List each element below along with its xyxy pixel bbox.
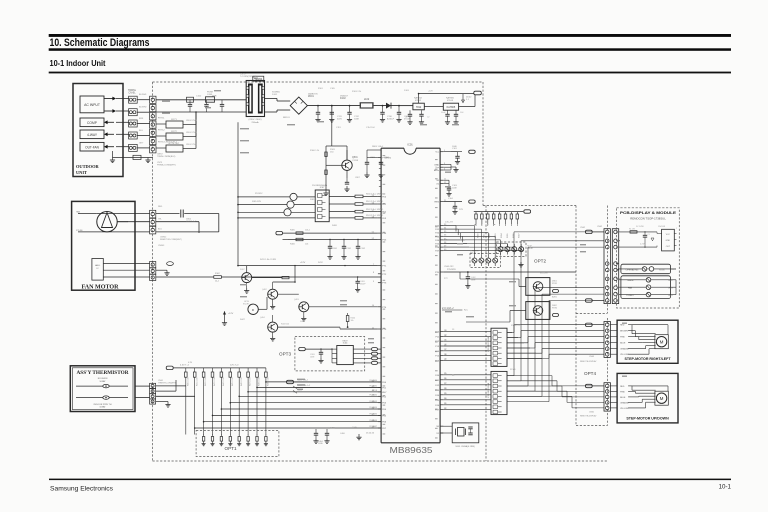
svg-text:P45: P45: [435, 244, 440, 246]
svg-text:C1: C1: [405, 117, 407, 119]
svg-text:26: 26: [445, 378, 447, 380]
svg-text:R437: R437: [519, 233, 521, 238]
svg-text:BR101: BR101: [283, 117, 290, 119]
svg-text:CN903: CN903: [158, 245, 165, 247]
svg-text:R434: R434: [501, 233, 503, 238]
svg-text:150: 150: [330, 152, 334, 154]
svg-text:KEY8: KEY8: [372, 390, 377, 392]
svg-text:16: 16: [445, 344, 447, 346]
svg-text:LED2: LED2: [668, 280, 673, 282]
svg-text:CN63: CN63: [589, 356, 595, 358]
svg-text:103E: 103E: [471, 279, 476, 281]
svg-text:12V: 12V: [459, 209, 463, 211]
svg-text:4.3V-T+1: 4.3V-T+1: [180, 364, 190, 366]
svg-text:25: 25: [452, 375, 455, 377]
svg-text:YEL: YEL: [158, 219, 163, 221]
svg-text:L102: L102: [364, 98, 370, 101]
svg-text:Q402: Q402: [262, 289, 267, 291]
svg-text:RY712: RY712: [158, 130, 165, 132]
svg-text:P64: P64: [382, 409, 387, 411]
svg-text:P03: P03: [382, 218, 387, 220]
svg-text:PINK: PINK: [620, 337, 625, 339]
svg-text:COMP: COMP: [87, 121, 98, 125]
svg-text:X1: X1: [436, 184, 439, 186]
svg-text:13: 13: [452, 329, 455, 331]
svg-text:CN63-2R2: CN63-2R2: [444, 266, 454, 268]
svg-text:P63: P63: [382, 403, 387, 405]
svg-text:R471 10k: R471 10k: [250, 377, 252, 386]
svg-text:1N4148: 1N4148: [658, 226, 666, 228]
svg-text:IR: IR: [252, 309, 255, 312]
svg-text:TRMNL-TERM(BLK): TRMNL-TERM(BLK): [157, 156, 176, 158]
svg-text:2A480?-K: 2A480?-K: [308, 93, 318, 96]
svg-text:BLU: BLU: [139, 130, 143, 132]
svg-text:R407: R407: [240, 269, 245, 271]
svg-text:P71/INT1: P71/INT1: [382, 158, 392, 160]
svg-text:RA41: RA41: [452, 207, 458, 210]
svg-text:RY82: RY82: [552, 308, 558, 310]
svg-text:ASS'Y THERMISTOR: ASS'Y THERMISTOR: [77, 371, 130, 376]
svg-text:15: 15: [445, 339, 447, 341]
svg-text:103AT: 103AT: [99, 405, 106, 408]
svg-text:C501: C501: [347, 248, 352, 250]
svg-text:IC103: IC103: [447, 100, 454, 102]
svg-text:7812: 7812: [416, 106, 422, 109]
svg-text:R103 2.2k: R103 2.2k: [352, 91, 361, 93]
svg-text:M: M: [660, 396, 664, 401]
svg-text:LED3: LED3: [668, 287, 673, 289]
svg-text:10-1: 10-1: [719, 483, 732, 490]
svg-text:SSR-D: SSR-D: [310, 199, 317, 201]
svg-text:P65: P65: [382, 415, 387, 417]
svg-text:BROWN: BROWN: [620, 331, 628, 333]
svg-text:REMOTE-DISPLAY: REMOTE-DISPLAY: [580, 415, 597, 418]
svg-text:FAN MOTOR: FAN MOTOR: [82, 284, 120, 291]
svg-text:400V: 400V: [337, 118, 342, 120]
svg-text:R160 2.2k-J 1/8W+1: R160 2.2k-J 1/8W+1: [366, 194, 383, 196]
svg-text:HALL: HALL: [95, 264, 101, 267]
svg-text:PINK: PINK: [620, 391, 625, 393]
svg-text:P75: P75: [382, 329, 387, 331]
svg-text:A330uF: A330uF: [387, 117, 395, 120]
svg-text:8: 8: [373, 272, 375, 274]
svg-text:AVss: AVss: [434, 169, 440, 172]
svg-text:C104: C104: [448, 198, 454, 200]
svg-text:Q403: Q403: [294, 299, 299, 301]
svg-text:OUT: OUT: [666, 246, 671, 248]
svg-text:CN62: CN62: [597, 226, 603, 228]
svg-text:STEP-MOTOR RIGHT/LEFT: STEP-MOTOR RIGHT/LEFT: [625, 357, 672, 361]
svg-text:R162 2.2k-J 1/8W+1: R162 2.2k-J 1/8W+1: [366, 209, 383, 211]
svg-text:Q801: Q801: [352, 157, 358, 159]
svg-text:YELLOW: YELLOW: [620, 408, 628, 410]
svg-text:OUTDOOR: OUTDOOR: [76, 164, 100, 169]
svg-text:X001 CERA(4.19M): X001 CERA(4.19M): [455, 445, 475, 448]
svg-text:R106 1.2k: R106 1.2k: [310, 150, 319, 152]
svg-text:R431: R431: [483, 233, 485, 238]
svg-text:14: 14: [445, 335, 447, 337]
svg-text:KA7805: KA7805: [447, 106, 456, 109]
svg-text:470uF: 470uF: [404, 118, 410, 120]
svg-text:P46: P46: [435, 247, 440, 249]
svg-text:R405: R405: [290, 229, 296, 231]
svg-text:103AT: 103AT: [99, 380, 106, 383]
svg-text:RED: RED: [620, 386, 625, 388]
svg-text:P72: P72: [444, 278, 448, 280]
svg-text:P41: P41: [435, 380, 440, 382]
svg-text:1.8k-J×8: 1.8k-J×8: [445, 221, 454, 224]
svg-text:RY713 JW-S 12V-1: RY713 JW-S 12V-1: [158, 142, 178, 144]
svg-text:103E: 103E: [318, 443, 323, 445]
svg-text:S1WB60: S1WB60: [272, 92, 281, 94]
svg-text:RES: RES: [435, 202, 440, 204]
svg-text:FUSE: FUSE: [207, 92, 213, 94]
svg-text:1k-J: 1k-J: [215, 281, 219, 283]
svg-text:JW-S 12V-1: JW-S 12V-1: [186, 144, 198, 146]
svg-text:10-1 Indoor Unit: 10-1 Indoor Unit: [50, 59, 106, 68]
svg-text:+12V: +12V: [428, 91, 433, 93]
svg-text:C105: C105: [330, 88, 336, 90]
svg-text:R411 10k: R411 10k: [196, 378, 198, 386]
svg-text:OPT4: OPT4: [584, 371, 596, 376]
svg-text:P44: P44: [435, 240, 440, 242]
svg-text:P55: P55: [382, 240, 387, 242]
svg-text:PRIMB-CONN(WHT): PRIMB-CONN(WHT): [157, 165, 176, 167]
svg-text:KA7805: KA7805: [446, 97, 455, 100]
svg-text:Q404: Q404: [260, 317, 265, 319]
svg-text:R451 10k: R451 10k: [232, 377, 234, 386]
svg-text:P60/AN0: P60/AN0: [369, 379, 377, 382]
svg-text:P43: P43: [435, 236, 440, 238]
svg-text:4.7uF: 4.7uF: [640, 244, 645, 246]
svg-text:P61/AN1: P61/AN1: [369, 385, 377, 388]
svg-text:P11: P11: [435, 336, 439, 338]
svg-text:OPT1: OPT1: [225, 446, 237, 451]
svg-text:+12V: +12V: [300, 262, 306, 264]
svg-text:R431 10k: R431 10k: [214, 377, 216, 386]
svg-text:R411 1.8k-J 1/8W: R411 1.8k-J 1/8W: [260, 259, 276, 261]
svg-text:R2 A0: R2 A0: [510, 368, 516, 371]
svg-text:P43: P43: [435, 390, 440, 392]
svg-text:P70/INT0: P70/INT0: [447, 269, 457, 271]
svg-text:P67/AN7: P67/AN7: [369, 425, 377, 428]
svg-text:10k-J: 10k-J: [305, 229, 310, 231]
svg-text:P41: P41: [435, 229, 440, 231]
svg-text:R101: R101: [318, 88, 324, 90]
svg-text:R163 2.2k-J 1/8W+1: R163 2.2k-J 1/8W+1: [366, 215, 383, 217]
svg-text:10k: 10k: [351, 320, 354, 322]
svg-text:IC: IC: [97, 268, 100, 270]
svg-text:KEY: KEY: [382, 392, 387, 394]
svg-text:JW-S 12V-1: JW-S 12V-1: [186, 120, 198, 122]
svg-text:31: 31: [445, 403, 447, 405]
svg-text:BUZZER: BUZZER: [540, 273, 549, 275]
svg-text:REMOCON TSOP-1738SUL: REMOCON TSOP-1738SUL: [630, 216, 666, 220]
svg-text:10. Schematic Diagrams: 10. Schematic Diagrams: [50, 37, 150, 49]
svg-text:R1 A0, RP5: R1 A0, RP5: [511, 324, 522, 327]
svg-text:104: 104: [460, 112, 464, 114]
svg-text:C406: C406: [340, 433, 346, 435]
svg-text:104E: 104E: [452, 146, 457, 148]
svg-text:REMOTE-DISPLAY: REMOTE-DISPLAY: [580, 360, 597, 363]
svg-text:R435: R435: [507, 233, 509, 238]
svg-text:P01: P01: [382, 204, 387, 206]
svg-text:D101: D101: [272, 94, 278, 96]
svg-text:UNIT: UNIT: [76, 170, 87, 175]
svg-text:SSR-DRV: SSR-DRV: [252, 201, 262, 203]
svg-text:104E: 104E: [452, 187, 457, 189]
svg-text:29: 29: [445, 393, 447, 395]
svg-text:4-WAY: 4-WAY: [87, 133, 98, 137]
svg-text:BRN: BRN: [139, 118, 144, 120]
svg-text:VCC: VCC: [666, 234, 671, 236]
svg-text:SB180: SB180: [659, 269, 665, 271]
svg-text:M: M: [660, 340, 664, 345]
svg-text:TRMNL: TRMNL: [128, 89, 137, 92]
svg-text:R421 10k: R421 10k: [205, 377, 207, 386]
svg-text:P45: P45: [435, 400, 440, 402]
svg-text:3300P: 3300P: [360, 283, 366, 285]
svg-text:P47: P47: [435, 410, 440, 412]
svg-text:P16: P16: [435, 360, 440, 362]
svg-text:GND: GND: [434, 164, 439, 166]
svg-text:P66: P66: [382, 422, 387, 424]
svg-text:R481 10k: R481 10k: [259, 377, 261, 386]
svg-text:1N4007: 1N4007: [340, 96, 348, 98]
svg-text:R447: R447: [240, 319, 246, 321]
svg-text:F101: F101: [208, 94, 214, 96]
svg-text:BLUE: BLUE: [620, 397, 626, 399]
svg-text:YELLOW: YELLOW: [620, 354, 628, 356]
svg-text:STEP-MOTOR UP/DOWN: STEP-MOTOR UP/DOWN: [626, 417, 669, 421]
svg-text:KID65004A: KID65004A: [317, 184, 328, 187]
svg-text:OPT3: OPT3: [279, 352, 291, 357]
svg-text:RY711: RY711: [158, 118, 165, 120]
svg-text:CN62: CN62: [580, 227, 586, 229]
svg-text:RED: RED: [620, 325, 625, 327]
svg-text:P62: P62: [382, 396, 387, 398]
svg-text:12V-T+0: 12V-T+0: [230, 364, 239, 366]
svg-text:RED: RED: [158, 206, 163, 208]
svg-text:R432: R432: [489, 233, 491, 238]
svg-text:13: 13: [445, 330, 447, 332]
svg-text:P10: P10: [435, 332, 440, 334]
svg-text:R461 10k: R461 10k: [241, 377, 243, 386]
svg-text:RTLSE: RTLSE: [76, 230, 83, 232]
svg-text:P61: P61: [382, 387, 387, 389]
svg-text:KB0V: KB0V: [342, 340, 348, 342]
svg-text:R102: R102: [215, 273, 221, 275]
svg-text:13.10.25: 13.10.25: [366, 432, 375, 434]
svg-text:BLUE: BLUE: [620, 343, 626, 345]
svg-text:ORANGE: ORANGE: [620, 401, 629, 404]
svg-text:R408: R408: [332, 225, 338, 227]
svg-text:Vss: Vss: [435, 167, 440, 169]
svg-text:R412: R412: [318, 262, 324, 264]
svg-text:GND: GND: [666, 240, 671, 242]
svg-text:P00: P00: [382, 196, 387, 198]
svg-text:25: 25: [445, 373, 447, 375]
svg-text:C2: C2: [427, 117, 429, 119]
svg-text:BZ81: BZ81: [552, 297, 558, 299]
svg-text:C409: C409: [300, 321, 306, 323]
svg-text:P60: P60: [382, 382, 387, 384]
svg-text:RELAY: RELAY: [470, 252, 477, 255]
svg-text:C1: C1: [648, 234, 650, 236]
svg-text:C114 104: C114 104: [366, 127, 375, 129]
svg-text:D103: D103: [404, 90, 410, 92]
svg-text:RY71: RY71: [171, 119, 177, 121]
svg-text:X0: X0: [436, 180, 439, 182]
svg-text:2,3,1,M,+!: 2,3,1,M,+!: [442, 306, 454, 310]
svg-text:RY72: RY72: [171, 131, 177, 133]
svg-text:C102: C102: [196, 96, 202, 98]
svg-text:LED4: LED4: [668, 295, 673, 297]
svg-text:RY81: RY81: [552, 283, 558, 285]
svg-text:C3198: C3198: [352, 160, 359, 162]
svg-text:JW-S 12V-1: JW-S 12V-1: [186, 132, 198, 134]
svg-text:P54: P54: [382, 233, 387, 235]
svg-text:PCB-DISPLAY & MODULE: PCB-DISPLAY & MODULE: [620, 210, 676, 215]
svg-text:P46: P46: [435, 405, 440, 407]
svg-text:IC07: IC07: [320, 187, 325, 189]
svg-text:P47: P47: [435, 251, 440, 253]
svg-text:103E: 103E: [310, 356, 315, 358]
svg-text:P72: P72: [382, 274, 387, 276]
svg-text:P73: P73: [382, 283, 387, 285]
svg-text:BLU: BLU: [158, 229, 162, 231]
svg-text:R430: R430: [477, 233, 479, 238]
svg-text:P14: P14: [435, 351, 440, 353]
svg-text:9: 9: [373, 281, 375, 283]
svg-text:X1: X1: [436, 433, 439, 435]
svg-text:C101: C101: [452, 148, 458, 150]
svg-text:R501: R501: [333, 248, 338, 250]
svg-text:30: 30: [445, 398, 447, 400]
svg-text:LED1: LED1: [671, 269, 676, 271]
svg-text:104E: 104E: [352, 427, 357, 429]
svg-text:T-CONN(220V,1P): T-CONN(220V,1P): [240, 76, 257, 78]
svg-text:Samsung Electronics: Samsung Electronics: [50, 485, 113, 492]
svg-text:OPT2: OPT2: [534, 259, 546, 264]
svg-text:IR-DET: IR-DET: [243, 303, 250, 305]
svg-text:AC INPUT: AC INPUT: [84, 103, 100, 107]
svg-text:P13: P13: [435, 346, 440, 348]
svg-text:32: 32: [445, 408, 447, 410]
svg-text:5.1: 5.1: [466, 99, 470, 101]
svg-text:P64/AN4: P64/AN4: [369, 406, 377, 409]
svg-text:X0: X0: [436, 426, 439, 428]
svg-text:+12V: +12V: [228, 313, 234, 315]
svg-text:C807: C807: [355, 177, 361, 179]
svg-text:R161 2.2k-J 1/8W+1: R161 2.2k-J 1/8W+1: [366, 201, 383, 203]
svg-text:TRANS: TRANS: [254, 78, 262, 81]
svg-text:OUT-FAN: OUT-FAN: [85, 145, 100, 149]
svg-text:250mA: 250mA: [252, 121, 259, 124]
svg-text:P15: P15: [435, 356, 440, 358]
svg-text:P67: P67: [382, 428, 387, 430]
svg-text:P66/AN6: P66/AN6: [369, 419, 377, 422]
svg-text:P62/AN2: P62/AN2: [369, 394, 377, 397]
svg-text:R443 10k: R443 10k: [281, 323, 289, 325]
svg-text:CN61: CN61: [589, 412, 595, 414]
svg-text:Vcc: Vcc: [435, 152, 440, 154]
svg-text:P42: P42: [435, 233, 440, 235]
svg-text:19: 19: [445, 359, 447, 361]
svg-text:N.C: N.C: [464, 310, 468, 312]
svg-text:RY-DRV: RY-DRV: [255, 193, 263, 195]
svg-text:C113: C113: [336, 127, 342, 129]
svg-text:P63/AN3: P63/AN3: [369, 400, 377, 403]
svg-text:BL/WH1: BL/WH1: [139, 94, 147, 96]
svg-text:TIMER: TIMER: [627, 280, 634, 282]
svg-text:TURBO: TURBO: [626, 295, 634, 297]
svg-text:4.3V: 4.3V: [188, 362, 193, 364]
svg-text:R406: R406: [290, 244, 296, 246]
svg-text:P40: P40: [435, 226, 440, 228]
svg-text:104E: 104E: [354, 118, 359, 120]
svg-text:IC04: IC04: [343, 343, 348, 345]
svg-text:R1 1W: R1 1W: [629, 228, 635, 230]
svg-text:10k: 10k: [305, 244, 308, 246]
svg-text:27: 27: [445, 383, 447, 385]
svg-text:FAN: FAN: [628, 286, 633, 289]
svg-text:IC01: IC01: [407, 142, 413, 146]
svg-text:MB89635: MB89635: [390, 445, 433, 455]
svg-text:P02: P02: [382, 212, 387, 214]
svg-text:P12: P12: [435, 341, 440, 343]
svg-text:ORANGE: ORANGE: [620, 348, 629, 351]
svg-text:TAN: TAN: [76, 211, 81, 214]
svg-text:17: 17: [445, 349, 447, 351]
svg-text:R441 10k: R441 10k: [223, 377, 225, 386]
svg-text:18: 18: [445, 354, 447, 356]
svg-text:P65/AN5: P65/AN5: [369, 413, 377, 416]
svg-text:28: 28: [445, 388, 447, 390]
svg-text:P44: P44: [435, 395, 440, 397]
svg-text:THMSTR-CON(WHT): THMSTR-CON(WHT): [158, 382, 177, 384]
svg-text:1: 1: [676, 228, 677, 230]
svg-text:P70: P70: [435, 272, 440, 274]
svg-text:P71: P71: [382, 266, 387, 268]
svg-text:GRY: GRY: [139, 142, 144, 144]
svg-text:450V 1.5uF: 450V 1.5uF: [186, 221, 197, 223]
svg-text:C502: C502: [361, 248, 366, 250]
svg-text:P40: P40: [435, 375, 440, 377]
svg-text:IC06 KID65004A: IC06 KID65004A: [487, 336, 490, 352]
svg-text:5V 1/4W: 5V 1/4W: [636, 226, 644, 228]
svg-text:(220V~240V): (220V~240V): [249, 119, 262, 121]
svg-text:BL/WH2: BL/WH2: [139, 107, 147, 109]
svg-text:R401 10k: R401 10k: [187, 377, 189, 386]
svg-text:SMMOTOR-CONN(WHT): SMMOTOR-CONN(WHT): [160, 239, 182, 241]
svg-text:P42: P42: [435, 385, 440, 387]
svg-text:10uF: 10uF: [441, 112, 446, 114]
svg-text:P74: P74: [382, 307, 387, 309]
